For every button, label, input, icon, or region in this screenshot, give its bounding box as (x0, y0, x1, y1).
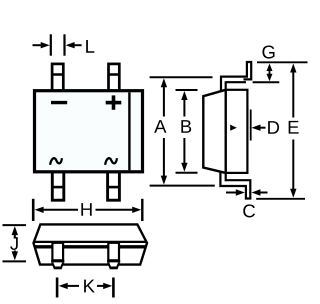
label K (84, 280, 95, 293)
dimension H tick left (32, 199, 35, 221)
dimension E arrow (290, 64, 296, 198)
dimension L tick 2 (63, 34, 65, 55)
upper lead shelf bottom edge (226, 81, 246, 83)
mold parting band upper line (34, 241, 147, 243)
bottom pin 2 crossbar (108, 186, 120, 189)
dimension G top extension line (257, 61, 308, 63)
upper lead gull-wing (221, 62, 251, 91)
label A (154, 120, 166, 133)
dimension A top extension line (150, 76, 213, 78)
bottom pin 1 crossbar (52, 186, 64, 189)
dimension D inner arrowhead (230, 125, 237, 131)
dimension A bottom extension line (150, 185, 215, 187)
dimension C left arrow (226, 189, 245, 195)
body polarity stripe line (128, 92, 130, 170)
dimension H left arrow (35, 207, 78, 213)
front leg 2 (108, 243, 119, 260)
minus marking (51, 101, 67, 104)
top pin 2 crossbar (109, 73, 120, 76)
bottom pin 1 (52, 172, 64, 200)
label G (262, 45, 274, 58)
dimension J top tick (3, 224, 27, 226)
label E (289, 121, 299, 134)
label H (81, 203, 91, 216)
dimension G bottom extension line (253, 81, 280, 83)
lower lead gull-wing (220, 172, 250, 198)
label D (268, 121, 279, 134)
label C (243, 204, 255, 217)
top pin 1 crossbar (52, 73, 63, 76)
dimension K left arrow (59, 283, 79, 289)
lead frame internal riser line (225, 81, 227, 181)
top pin 2 (109, 64, 120, 91)
AC tilde marking 1 (50, 158, 62, 165)
dimension H right arrow (96, 207, 142, 213)
dimension J bottom tick (3, 260, 27, 262)
top pin 1 (52, 64, 63, 91)
lead frame plate (side view) (226, 90, 248, 173)
foot 1 (52, 262, 64, 269)
bottom pin 2 (108, 172, 120, 200)
foot 1 solder bar (54, 266, 62, 269)
dimension G arrow (267, 64, 273, 82)
label B (181, 120, 191, 133)
dimension L right arrow (66, 42, 82, 48)
dimension D arrow (252, 125, 266, 131)
mold parting band lower line (35, 245, 146, 248)
dimension K right arrow (97, 283, 112, 289)
dimension K tick right (112, 278, 115, 298)
dimension E bottom extension line (256, 198, 305, 200)
foot 2 (108, 262, 120, 269)
package body (front view) (34, 224, 148, 264)
body trapezoid (side view) (203, 90, 225, 173)
foot 2 solder bar (110, 266, 118, 269)
label L (86, 40, 94, 53)
front leg 2 bottom bar (107, 260, 120, 263)
dimension D tick (250, 110, 252, 141)
dimension A arrow (161, 78, 167, 184)
dimension J arrow (12, 226, 18, 260)
front leg 1 bottom bar (51, 260, 64, 263)
AC tilde marking 2 (105, 158, 117, 165)
label J (10, 237, 18, 250)
dimension L left arrow (33, 42, 50, 48)
dimension L tick 1 (50, 34, 52, 55)
front leg 1 (52, 243, 63, 260)
dimension C right arrow (251, 189, 267, 195)
plus marking (106, 95, 122, 109)
package body (top view) (35, 91, 143, 172)
dimension B top tick (176, 89, 198, 91)
dimension H tick right (141, 199, 143, 221)
dimension B bottom tick (176, 172, 198, 174)
dimension K tick left (56, 278, 59, 298)
dimension B arrow (181, 91, 187, 172)
